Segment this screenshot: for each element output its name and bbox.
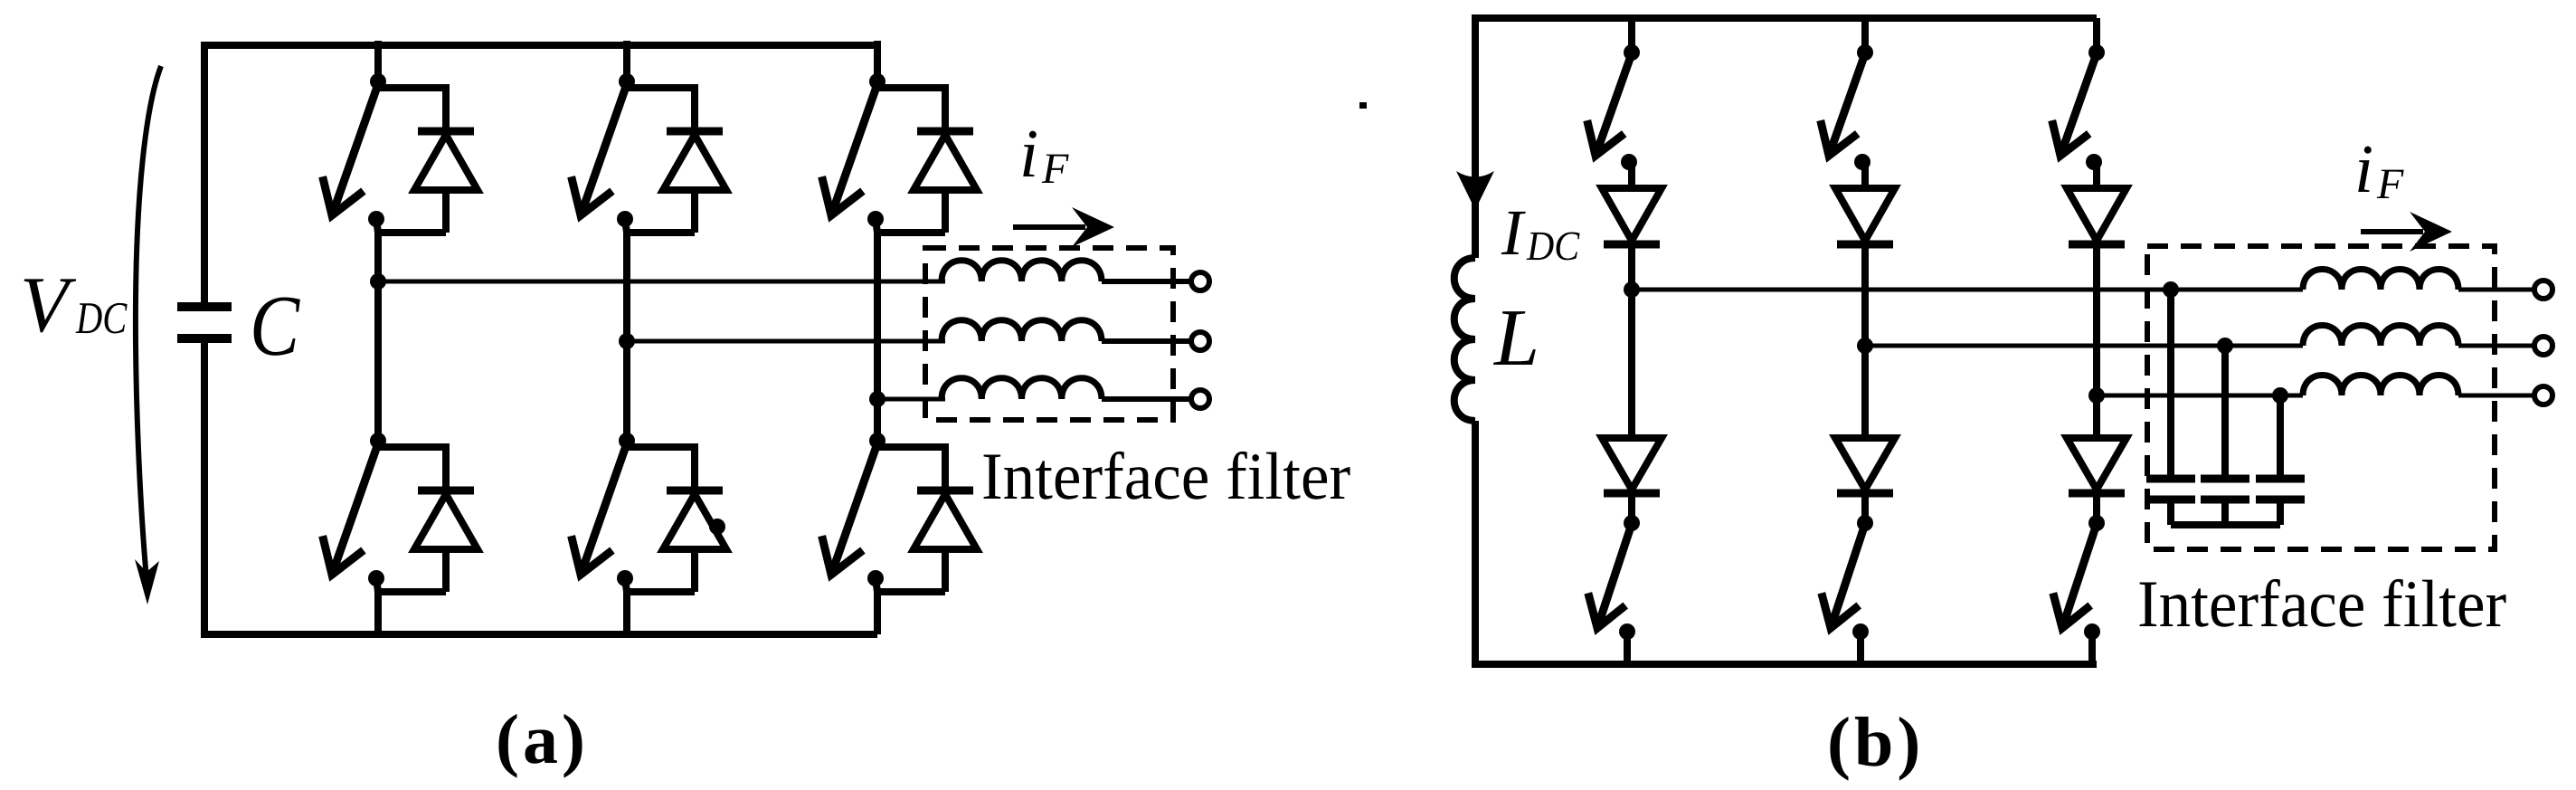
wire: T3 to diode (b) bbox=[2093, 162, 2100, 188]
wire: filter cap 3 branch (b) bbox=[2277, 395, 2284, 479]
switch S3 bottom (controlled switch arrow) bbox=[822, 443, 877, 575]
wire: phase A line bbox=[378, 280, 945, 284]
wire: CSI left rail upper bbox=[1472, 18, 1479, 258]
wire: phase to lower diode (b) leg 1 bbox=[1628, 290, 1635, 438]
wire: filter L2 output (a) bbox=[1102, 338, 1190, 344]
wire: filter L3 output (a) bbox=[1102, 396, 1190, 402]
inductor: filter L2 (a) bbox=[942, 320, 1102, 341]
node: S1 top emitter dot bbox=[368, 211, 384, 233]
capacitor: filter C1 (b) bbox=[2146, 479, 2195, 500]
wire: VSI bottom rail bbox=[201, 631, 877, 638]
arrow: V_DC direction (curved) bbox=[135, 66, 161, 604]
diode S1 bottom anti-parallel bbox=[414, 490, 478, 549]
label C bbox=[254, 297, 300, 355]
node: S2 top emitter dot bbox=[617, 211, 633, 233]
wire: phase to lower diode (b) leg 2 bbox=[1861, 346, 1869, 438]
switch T2' bottom (b) bbox=[1822, 527, 1864, 628]
wire: CSI bottom rail bbox=[1472, 661, 2097, 668]
diode D2' bottom (b) bbox=[1835, 438, 1895, 493]
switch T1' bottom (b) bbox=[1588, 527, 1631, 628]
wire: leg 2 middle bbox=[623, 233, 630, 441]
switch S1 top (controlled switch arrow) bbox=[323, 84, 378, 215]
wire: S3 top diode bottom link bbox=[877, 190, 945, 233]
wire: leg 2 to bottom rail bbox=[623, 592, 630, 634]
inductor: filter L3 (b) bbox=[2303, 376, 2458, 396]
label i_F (a) bbox=[1023, 131, 1068, 183]
node: S2 top collector dot bbox=[619, 73, 635, 90]
wire: S3 bottom diode top link bbox=[875, 443, 945, 490]
node: S2 bottom collector dot bbox=[619, 433, 635, 449]
node: phase A junction (b) bbox=[1624, 281, 1640, 298]
label L bbox=[1493, 311, 1536, 365]
wire: filter capacitor bus (b) bbox=[2171, 521, 2280, 528]
arrow: i_F direction (b) bbox=[2361, 212, 2452, 252]
wire: S3 top top stub bbox=[874, 41, 881, 81]
wire: filter L2 output (b) bbox=[2458, 344, 2535, 348]
inductor: filter L3 (a) bbox=[942, 378, 1102, 399]
wire: phase B line bbox=[627, 339, 945, 344]
wire: leg 1 middle bbox=[374, 233, 382, 441]
node: S1 bottom collector dot bbox=[370, 433, 386, 449]
wire: T1 to diode (b) bbox=[1628, 162, 1635, 188]
arrow: I_DC direction bbox=[1456, 171, 1494, 210]
wire: filter cap 3 to bus (b) bbox=[2277, 500, 2284, 525]
switch T3' bottom (b) bbox=[2053, 527, 2096, 628]
node: T3 mid dot (b) bbox=[2086, 154, 2102, 170]
wire: S1 bottom diode bottom link bbox=[378, 549, 446, 592]
switch T3 top (b) bbox=[2052, 56, 2096, 156]
node: filter junction C (b) bbox=[2272, 387, 2288, 404]
node: S1 bottom emitter dot bbox=[368, 570, 384, 592]
node: filter junction A (b) bbox=[2163, 281, 2179, 298]
node: phase C junction bbox=[869, 391, 885, 407]
wire: D2 to phase node (b) bbox=[1861, 248, 1869, 346]
stray mark bbox=[1359, 102, 1367, 109]
wire: S1 top top stub bbox=[374, 41, 382, 81]
diode S2 top anti-parallel bbox=[663, 131, 726, 190]
node: S3 top collector dot bbox=[869, 73, 885, 90]
wire: filter L1 output (b) bbox=[2458, 288, 2535, 292]
wire: leg 3 middle bbox=[874, 233, 881, 441]
switch T1 top (b) bbox=[1587, 56, 1631, 156]
wire: T2' to bottom rail (b) bbox=[1857, 632, 1864, 664]
node: phase B junction (b) bbox=[1857, 338, 1873, 354]
diode D1 top (b) bbox=[1602, 188, 1662, 244]
terminal: phase C output (a) bbox=[1191, 390, 1209, 408]
node: filter junction B (b) bbox=[2217, 338, 2233, 354]
switch S2 bottom (controlled switch arrow) bbox=[572, 443, 627, 575]
label i_F (b) bbox=[2358, 147, 2403, 198]
node: T3' bottom dot (b) bbox=[2084, 623, 2100, 640]
node: T2 mid dot (b) bbox=[1854, 154, 1870, 170]
inductor: filter L2 (b) bbox=[2303, 326, 2458, 347]
label V_DC bbox=[24, 279, 128, 333]
diode S3 bottom anti-parallel bbox=[914, 490, 977, 549]
arrow: i_F direction (a) bbox=[1013, 207, 1114, 247]
wire: S2 top diode bottom link bbox=[627, 190, 695, 233]
diode S2 bottom anti-parallel bbox=[663, 490, 726, 549]
wire: phase B line (b) bbox=[1865, 344, 2303, 348]
node: S3 bottom emitter dot bbox=[867, 570, 884, 592]
node: T2' top dot (b) bbox=[1857, 497, 1873, 531]
diode D2 top (b) bbox=[1835, 188, 1895, 244]
wire: CSI top rail bbox=[1472, 14, 2097, 22]
node: T1 top dot (b) bbox=[1624, 44, 1640, 61]
node: phase C junction (b) bbox=[2088, 387, 2105, 404]
node: S2 bottom emitter dot bbox=[617, 570, 633, 592]
wire: T3' to bottom rail (b) bbox=[2088, 632, 2096, 664]
wire: leg 1 to bottom rail bbox=[374, 592, 382, 634]
interface filter box (a) bbox=[925, 248, 1173, 420]
node: T1' top dot (b) bbox=[1624, 497, 1640, 531]
wire: leg 3 top stub (b) bbox=[2093, 18, 2100, 52]
terminal: phase B output (b) bbox=[2534, 337, 2552, 355]
node: T3 top dot (b) bbox=[2088, 44, 2105, 61]
label: Interface filter (a) bbox=[984, 452, 1350, 500]
terminal: phase A output (b) bbox=[2534, 281, 2552, 299]
terminal: phase A output (a) bbox=[1191, 272, 1209, 290]
node: T2' bottom dot (b) bbox=[1852, 623, 1869, 640]
switch S1 bottom (controlled switch arrow) bbox=[323, 443, 378, 575]
wire: S3 bottom diode bottom link bbox=[877, 549, 945, 592]
switch S2 top (controlled switch arrow) bbox=[572, 84, 627, 215]
wire: VSI left rail lower bbox=[201, 338, 208, 634]
wire: filter cap 2 to bus (b) bbox=[2221, 500, 2229, 525]
switch S3 top (controlled switch arrow) bbox=[822, 84, 877, 215]
wire: phase to lower diode (b) leg 3 bbox=[2093, 395, 2100, 438]
label (a) bbox=[498, 714, 582, 778]
wire: CSI left rail lower bbox=[1472, 421, 1479, 664]
capacitor: filter C3 (b) bbox=[2256, 479, 2305, 500]
wire: S2 bottom top stub bbox=[623, 432, 630, 441]
wire: filter cap 1 to bus (b) bbox=[2167, 500, 2174, 525]
node: T3' top dot (b) bbox=[2088, 497, 2105, 531]
node: T1' bottom dot (b) bbox=[1619, 623, 1635, 640]
terminal: phase C output (b) bbox=[2534, 386, 2552, 405]
wire: S1 bottom diode top link bbox=[375, 443, 446, 490]
wire: filter L1 output (a) bbox=[1102, 279, 1190, 284]
wire: VSI top rail bbox=[201, 42, 877, 49]
wire: phase C line bbox=[877, 397, 945, 402]
switch T2 top (b) bbox=[1821, 56, 1864, 156]
wire: D3 to phase node (b) bbox=[2093, 248, 2100, 395]
node: T2 top dot (b) bbox=[1857, 44, 1873, 61]
terminal: phase B output (a) bbox=[1191, 332, 1209, 350]
wire: filter cap 2 branch (b) bbox=[2221, 346, 2229, 479]
node: phase B junction bbox=[619, 333, 635, 349]
wire: T2 to diode (b) bbox=[1861, 162, 1869, 188]
wire: VSI left rail upper bbox=[201, 45, 208, 307]
wire: S3 top diode top link bbox=[875, 84, 945, 131]
diode S3 top anti-parallel bbox=[914, 131, 977, 190]
label: Interface filter (b) bbox=[2140, 579, 2506, 627]
node: T1 mid dot (b) bbox=[1621, 154, 1637, 170]
node: S1 top collector dot bbox=[370, 73, 386, 90]
diode D1' bottom (b) bbox=[1602, 438, 1662, 493]
node: S3 bottom collector dot bbox=[869, 433, 885, 449]
wire: S1 top diode top link bbox=[375, 84, 446, 131]
wire: T1' to bottom rail (b) bbox=[1624, 632, 1631, 664]
wire: S3 bottom top stub bbox=[874, 432, 881, 441]
wire: S2 bottom diode bottom link bbox=[627, 549, 695, 592]
capacitor C (DC-link) bbox=[177, 307, 232, 338]
wire: S1 top diode bottom link bbox=[378, 190, 446, 233]
node: phase A junction bbox=[370, 273, 386, 290]
wire: filter L3 output (b) bbox=[2458, 394, 2535, 398]
diode D3' bottom (b) bbox=[2067, 438, 2126, 493]
label I_DC bbox=[1501, 212, 1580, 261]
inductor: filter L1 (b) bbox=[2303, 270, 2458, 290]
wire: leg 2 top stub (b) bbox=[1861, 18, 1869, 52]
wire: filter cap 1 branch (b) bbox=[2167, 290, 2174, 479]
wire: phase C line (b) bbox=[2097, 394, 2303, 398]
wire: S2 top top stub bbox=[623, 41, 630, 81]
node: S3 top emitter dot bbox=[867, 211, 884, 233]
diode S1 top anti-parallel bbox=[414, 131, 478, 190]
wire: leg 3 to bottom rail bbox=[874, 592, 881, 634]
wire: S2 bottom diode top link bbox=[624, 443, 695, 490]
capacitor: filter C2 (b) bbox=[2201, 479, 2249, 500]
label (b) bbox=[1830, 717, 1917, 781]
wire: phase A line (b) bbox=[1632, 288, 2303, 292]
wire: D1 to phase node (b) bbox=[1628, 248, 1635, 290]
inductor: filter L1 (a) bbox=[942, 261, 1102, 281]
stray junction dot on D2' (artifact) bbox=[709, 519, 725, 535]
interface filter box (b) bbox=[2147, 246, 2495, 549]
wire: leg 1 top stub (b) bbox=[1628, 18, 1635, 52]
wire: S1 bottom top stub bbox=[374, 432, 382, 441]
inductor L (DC-link) bbox=[1454, 258, 1475, 421]
wire: S2 top diode top link bbox=[624, 84, 695, 131]
diode D3 top (b) bbox=[2067, 188, 2126, 244]
